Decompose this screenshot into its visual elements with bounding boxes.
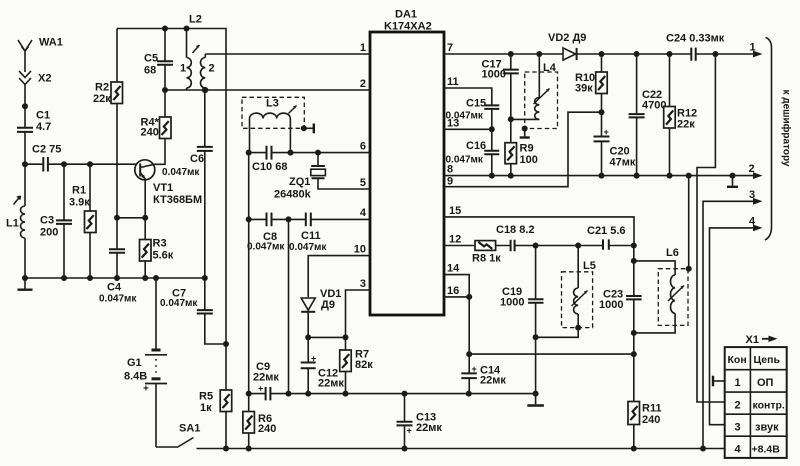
svg-text:2: 2 (209, 63, 215, 75)
svg-text:8.4В: 8.4В (124, 371, 147, 383)
capacitor C1 (17, 106, 33, 164)
inductor L4 (in screen box) (511, 54, 540, 119)
capacitor C24 (691, 48, 695, 61)
wire pin 12 (444, 245, 634, 247)
node C21-L6-pin15 (631, 243, 637, 249)
inductor L2 winding 2 (201, 54, 206, 90)
svg-text:5.6к: 5.6к (153, 250, 174, 262)
capacitor C3 (56, 164, 72, 278)
svg-text:+: + (143, 384, 149, 395)
svg-text:VT1: VT1 (153, 182, 173, 194)
L5 tuning arrow (572, 291, 588, 307)
svg-text:SA1: SA1 (179, 423, 200, 435)
wire pin 9 (444, 112, 602, 187)
svg-text:+: + (258, 384, 263, 394)
inductor L5 (in screen box) (536, 246, 579, 338)
svg-text:0.047мк: 0.047мк (99, 294, 137, 305)
capacitor C17 (503, 54, 519, 143)
svg-text:1000: 1000 (500, 297, 524, 309)
wire 8.4V bottom bus (226, 448, 725, 450)
svg-text:R1: R1 (72, 185, 86, 197)
capacitor C9 (249, 387, 289, 400)
svg-text:C2 75: C2 75 (32, 144, 61, 156)
capacitor C6 (197, 90, 213, 278)
svg-text:R3: R3 (153, 238, 167, 250)
svg-text:C16: C16 (466, 140, 486, 152)
svg-text:+: + (604, 127, 609, 137)
svg-text:4: 4 (749, 215, 756, 227)
X1 pin1 chassis stub (713, 376, 725, 387)
wire decoupled bus (289, 393, 536, 395)
svg-text:100: 100 (520, 154, 538, 166)
svg-text:7: 7 (447, 42, 453, 54)
L4 screen tap (520, 129, 530, 138)
svg-text:R8 1к: R8 1к (472, 253, 501, 265)
capacitor C8 (267, 213, 272, 227)
node C19 top (533, 243, 539, 249)
decoder brace (765, 38, 772, 241)
capacitor C15 (484, 105, 499, 129)
wire top rail (117, 29, 226, 345)
svg-text:3: 3 (735, 422, 741, 434)
resistor R9 (505, 143, 517, 176)
svg-text:VD2 Д9: VD2 Д9 (548, 32, 586, 44)
inductor L2 winding 1 (187, 29, 192, 91)
svg-text:82к: 82к (355, 359, 373, 371)
wire pin 8 AGC bus (444, 175, 759, 177)
ground tap on bus 2 (727, 176, 738, 187)
svg-text:L6: L6 (666, 247, 679, 259)
svg-text:WA1: WA1 (39, 37, 63, 49)
svg-text:R9: R9 (520, 143, 534, 155)
switch SA1 (156, 438, 226, 449)
L3 tuning arrow (289, 106, 297, 114)
wire pin 6 (249, 152, 370, 154)
connector X2 (19, 71, 31, 106)
svg-text:3: 3 (749, 189, 755, 201)
svg-text:22мк: 22мк (416, 422, 442, 434)
capacitor C2 (25, 157, 136, 172)
node pin4 left (246, 216, 252, 222)
transistor VT1 (135, 160, 155, 218)
svg-text:C11: C11 (301, 230, 321, 242)
node C9 right (286, 391, 292, 397)
svg-text:22мк: 22мк (318, 378, 344, 390)
svg-text:1: 1 (360, 42, 366, 54)
wire C19 bottom drop (535, 337, 537, 393)
wire pin 7 rail (444, 53, 759, 55)
svg-text:8: 8 (447, 164, 453, 176)
connector X1 table (725, 347, 787, 458)
svg-text:к дешифратору: к дешифратору (781, 89, 793, 166)
svg-text:2: 2 (735, 400, 741, 412)
svg-text:звук: звук (755, 422, 779, 434)
svg-text:5: 5 (360, 177, 366, 189)
svg-text:+8.4В: +8.4В (752, 444, 781, 456)
svg-text:C21 5.6: C21 5.6 (587, 225, 626, 237)
inductor L6 (in screen box) (634, 261, 675, 333)
X1 arrow (762, 336, 778, 342)
resistor R12 (664, 54, 676, 176)
wire pin 10 (308, 256, 370, 298)
wire common bus (25, 277, 205, 279)
svg-text:контр.: контр. (753, 400, 785, 412)
capacitor C18 (511, 240, 515, 251)
resistor R5 (220, 344, 232, 449)
svg-text:+: + (311, 354, 316, 364)
svg-text:1: 1 (750, 42, 756, 54)
capacitor C12 (301, 337, 316, 393)
node R1 top (87, 161, 93, 167)
svg-text:ОП: ОП (757, 377, 774, 389)
crystal ZQ1 (311, 153, 370, 189)
svg-text:12: 12 (449, 234, 461, 246)
svg-text:КТ368БМ: КТ368БМ (153, 194, 202, 206)
capacitor C20 (594, 112, 610, 175)
svg-text:200: 200 (40, 227, 58, 239)
svg-text:4.7: 4.7 (36, 121, 51, 133)
svg-text:C10 68: C10 68 (252, 161, 287, 173)
diode VD1 (301, 298, 315, 337)
resistor R7 (340, 337, 352, 393)
svg-text:15: 15 (449, 205, 461, 217)
node L5 top (575, 243, 581, 249)
svg-text:11: 11 (447, 76, 459, 88)
node R5 top (223, 341, 229, 347)
svg-text:L1: L1 (6, 218, 19, 230)
wire output 4 (710, 228, 759, 425)
ground bar at bus end (527, 394, 544, 406)
node C24 output (712, 51, 718, 57)
svg-text:1к: 1к (200, 402, 212, 414)
svg-text:22к: 22к (677, 119, 695, 131)
wire C24 out to X1 pin2 (697, 54, 725, 402)
L6 tuning arrow (668, 286, 684, 302)
svg-text:K174XA2: K174XA2 (384, 21, 432, 33)
wire pin 3 (346, 290, 371, 337)
svg-text:0.047мк: 0.047мк (160, 298, 198, 309)
wire pin 11 (444, 88, 492, 105)
resistor R11 (628, 402, 640, 449)
svg-text:22к: 22к (93, 93, 111, 105)
svg-text:L4: L4 (543, 62, 557, 74)
svg-text:G1: G1 (127, 357, 142, 369)
node base-wire left (22, 161, 28, 167)
svg-text:1: 1 (180, 63, 186, 75)
capacitor C23 (626, 261, 642, 333)
svg-text:3.9к: 3.9к (69, 197, 90, 209)
node C23 bottom (631, 330, 637, 336)
svg-text:Кон: Кон (728, 354, 747, 366)
svg-text:6: 6 (360, 141, 366, 153)
svg-text:240: 240 (642, 414, 660, 426)
wire L6 screen to bus (688, 176, 690, 269)
diode VD2 (563, 48, 577, 60)
svg-text:R2: R2 (95, 82, 109, 94)
svg-text:1000: 1000 (482, 69, 506, 81)
svg-text:22мк: 22мк (253, 372, 279, 384)
svg-text:68: 68 (144, 65, 156, 77)
wire pin15 node drop (633, 246, 635, 261)
svg-text:L2: L2 (189, 14, 202, 26)
output arrow 2 (753, 172, 763, 179)
wire VD1-R7 link (308, 336, 345, 338)
svg-text:26480k: 26480k (274, 189, 312, 201)
svg-text:C15: C15 (466, 98, 486, 110)
wire pin 1 (205, 53, 370, 55)
capacitor C21 (603, 239, 609, 249)
svg-text:47мк: 47мк (610, 157, 636, 169)
output arrow 3 (753, 198, 763, 205)
resistor R8 (475, 241, 496, 251)
output arrow 1 (753, 51, 763, 58)
svg-text:R5: R5 (199, 391, 213, 403)
capacitor C19 (528, 246, 543, 338)
svg-text:C6: C6 (190, 153, 204, 165)
svg-text:2: 2 (360, 78, 366, 90)
svg-text:C24 0.33мк: C24 0.33мк (666, 33, 725, 45)
svg-text:0.047мк: 0.047мк (289, 242, 327, 253)
battery G1 (145, 278, 167, 447)
svg-text:+: + (472, 364, 477, 374)
L2 tuning arrow (193, 45, 200, 53)
inductor L3 (in screen box) (250, 113, 291, 153)
wire pin 14 (444, 275, 469, 297)
svg-text:0.047мк: 0.047мк (247, 242, 285, 253)
capacitor C10 (267, 146, 272, 160)
svg-text:C1: C1 (36, 110, 50, 122)
svg-text:2: 2 (749, 163, 755, 175)
svg-text:Цепь: Цепь (754, 354, 781, 366)
capacitor C11 (306, 213, 311, 227)
wire output 3 (703, 201, 759, 448)
svg-text:DA1: DA1 (395, 9, 417, 21)
output arrow 4 (753, 225, 763, 232)
node C8-C11 junction (286, 216, 292, 222)
wire pin 2 (165, 89, 370, 91)
resistor R6 (243, 394, 255, 449)
svg-text:13: 13 (447, 117, 459, 129)
capacitor C16 (484, 129, 499, 175)
node C21 right drop (631, 258, 637, 264)
node C9 left (246, 391, 252, 397)
wire pin 4 (249, 218, 370, 220)
wire emitter (117, 217, 145, 219)
capacitor C5 (157, 29, 173, 91)
svg-text:0.047мк: 0.047мк (162, 167, 200, 178)
node pin6 right (288, 150, 294, 156)
pin8 bus junction dots (489, 173, 495, 179)
resistor R1 (85, 164, 97, 278)
node antenna junction (22, 103, 28, 109)
wire pin 15 (444, 217, 634, 246)
antenna WA1 (18, 40, 32, 72)
resistor R3 (140, 218, 152, 278)
node C17-L4 junction (508, 116, 514, 122)
inductor L1 (variable) (14, 164, 26, 278)
svg-text:+: + (407, 426, 412, 436)
svg-text:C5: C5 (144, 53, 158, 65)
wire C8 junction drop (288, 219, 290, 393)
resistor R10 (596, 54, 608, 112)
svg-text:9: 9 (447, 176, 453, 188)
wire pin 13 (444, 128, 492, 130)
svg-text:240: 240 (141, 127, 159, 139)
capacitor C7 (197, 278, 226, 344)
svg-text:R11: R11 (642, 403, 662, 415)
capacitor C4 (109, 218, 125, 278)
L3 screen tap (304, 124, 314, 134)
svg-text:C4: C4 (107, 282, 122, 294)
capacitor C14 (461, 354, 477, 394)
svg-text:C3: C3 (40, 215, 54, 227)
ground chassis bar (18, 278, 33, 290)
resistor R2 (111, 29, 123, 218)
svg-text:4: 4 (735, 444, 742, 456)
resistor R4 (154, 90, 171, 164)
svg-text:4700: 4700 (642, 100, 666, 112)
L4 tuning arrow (534, 89, 550, 105)
wire L3 feed line (248, 153, 250, 394)
svg-text:22мк: 22мк (480, 375, 506, 387)
svg-text:240: 240 (258, 423, 276, 435)
svg-text:ZQ1: ZQ1 (289, 176, 310, 188)
IC DA1 K174XA2 (370, 32, 444, 315)
node C3 top (61, 161, 67, 167)
svg-text:1000: 1000 (599, 299, 623, 311)
svg-text:16: 16 (447, 285, 459, 297)
node C19 bottom (533, 334, 539, 340)
svg-text:10: 10 (354, 244, 366, 256)
svg-text:Д9: Д9 (321, 299, 335, 311)
svg-text:X2: X2 (38, 73, 51, 85)
wire detector bus (469, 353, 634, 355)
node pin6 left (246, 150, 252, 156)
capacitor C22 (629, 54, 645, 176)
svg-text:14: 14 (447, 263, 460, 275)
svg-text:L5: L5 (583, 260, 596, 272)
wire pin 16 (444, 297, 469, 354)
wire C23 to R11 (633, 333, 635, 402)
svg-text:4: 4 (360, 207, 367, 219)
svg-text:L3: L3 (266, 98, 279, 110)
capacitor C13 (397, 394, 413, 449)
node L5 screen exit (575, 325, 581, 331)
svg-text:39к: 39к (575, 83, 593, 95)
svg-text:3: 3 (360, 278, 366, 290)
svg-text:X1: X1 (746, 334, 759, 346)
svg-text:1: 1 (735, 377, 741, 389)
svg-text:C18 8.2: C18 8.2 (496, 224, 535, 236)
